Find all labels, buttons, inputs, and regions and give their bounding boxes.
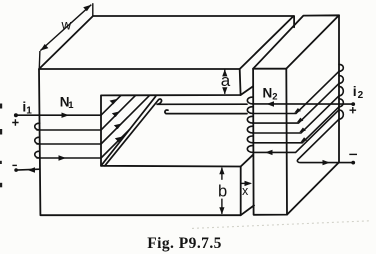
svg-text:a: a (221, 71, 231, 90)
svg-text:N: N (263, 85, 273, 100)
svg-text:2: 2 (272, 92, 277, 103)
svg-text:1: 1 (26, 105, 32, 116)
svg-text:b: b (218, 182, 227, 200)
svg-text:Fig. P9.7.5: Fig. P9.7.5 (147, 235, 222, 252)
svg-text:w: w (61, 18, 72, 33)
svg-text:x: x (242, 184, 249, 198)
svg-text:i: i (353, 83, 357, 99)
svg-text:2: 2 (358, 90, 364, 101)
svg-text:1: 1 (68, 100, 74, 111)
